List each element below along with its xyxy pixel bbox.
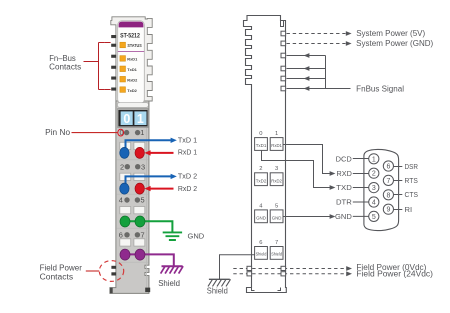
svg-text:6: 6 [259,240,262,246]
svg-text:0: 0 [259,131,262,137]
Fn-Bus contact tab 1 [111,35,116,38]
svg-text:5: 5 [372,214,376,221]
box Shield pin6 [255,247,268,260]
terminal socket squares row 4 [120,239,131,246]
wire RxD2 red [150,188,173,190]
lead pin8 to CTS [393,194,402,196]
svg-text:1: 1 [140,128,144,137]
svg-text:GND: GND [188,231,205,240]
terminal socket squares row 1 [120,142,131,149]
Fn-Bus contact tab 5 [111,77,116,80]
DB9 pin 7 [383,175,393,185]
red dashed circle around field power contacts [99,261,123,282]
fnbus signal wire 4 [287,88,351,90]
svg-text:TxD1: TxD1 [127,67,137,72]
dashed wire Field Power 0Vdc [233,268,346,270]
DB9 pin 5 [369,211,379,221]
schematic top-right hanging tab [281,21,284,27]
fnbus contact tab 3 [281,76,286,81]
field power contact tab lower [111,272,116,275]
pin row 0/1: hole dots [124,130,129,135]
svg-text:1: 1 [275,131,278,137]
Fn-Bus contact tab 4 [111,66,116,69]
rotary switch digit 1 window [134,111,146,125]
module ST-5212 body [110,17,152,294]
wire TxD2 blue [126,176,171,186]
Fn-Bus contact tab 6 [111,88,116,91]
lead pin6 to DSR [393,166,402,168]
rotary switch light bar [117,103,148,108]
shield symbol (schematic, black) [209,278,230,280]
field power crossing tab left-edge lower [247,272,252,276]
svg-text:RxD2: RxD2 [127,77,138,82]
svg-text:0: 0 [123,112,130,126]
terminal green pin4 [120,216,130,227]
module bottom-right dark notch [145,288,150,293]
box RxD1 [270,138,283,151]
STATUS LED [120,42,126,48]
svg-text:RxD 1: RxD 1 [178,148,197,157]
svg-text:RxD1: RxD1 [271,143,282,149]
terminal purple pin6 [120,249,130,260]
svg-text:2: 2 [120,162,124,171]
svg-text:TxD2: TxD2 [127,88,137,93]
svg-text:TXD: TXD [336,183,352,192]
svg-text:RxD2: RxD2 [271,178,282,184]
svg-text:2: 2 [372,171,376,178]
box TxD2 [255,173,268,186]
DB9 pin 1 [369,154,379,164]
terminal red pin3 [135,183,144,194]
svg-text:FnBus Signal: FnBus Signal [356,84,404,93]
svg-text:TxD 1: TxD 1 [178,135,197,144]
DB9 pin 6 [383,161,393,171]
svg-text:DCD: DCD [336,154,352,163]
wire TxD1 to TXD [262,150,331,187]
svg-text:6: 6 [386,164,390,171]
LED RxD2 [120,76,126,82]
terminal blue pin0 [120,147,129,158]
svg-text:3: 3 [372,185,376,192]
svg-text:3: 3 [141,162,145,171]
svg-text:GND: GND [256,215,266,221]
svg-text:TxD1: TxD1 [256,143,267,149]
module lower gray section [110,101,149,293]
svg-text:7: 7 [386,178,390,185]
svg-text:5: 5 [141,196,145,205]
svg-text:DTR: DTR [336,198,352,207]
svg-text:GND: GND [335,212,352,221]
fnbus signal wire 1 [287,55,326,57]
svg-text:Pin No: Pin No [45,128,70,137]
module purple header bar [119,22,144,28]
box Shield pin7 [270,247,283,260]
svg-text:Contacts: Contacts [49,63,81,72]
svg-text:1: 1 [137,112,144,126]
pin row 6/7: hole dots [124,232,129,237]
field power crossing tab right-edge upper [281,266,286,270]
svg-text:ST-5212: ST-5212 [120,32,140,39]
svg-text:Shield: Shield [256,252,267,257]
box GND pin4 [255,210,268,223]
LED RxD1 [120,56,126,62]
purple separator line [118,50,145,52]
wire Shield purple [125,254,173,265]
wire TxD1 blue [126,140,171,151]
svg-text:2: 2 [259,166,262,172]
red pointer line to field power contacts [86,270,99,272]
DB9 pin 3 [369,183,379,193]
red ring around pin label 0 [118,129,124,136]
fnbus contact tab 4 [281,86,286,91]
terminal red pin1 [135,147,144,158]
svg-text:6: 6 [119,231,123,240]
dashed wire System Power 5V [287,33,346,35]
DB9 pin 4 [369,197,379,207]
module label panel [118,21,145,104]
svg-text:RxD 2: RxD 2 [178,184,197,193]
svg-text:RXD: RXD [337,169,352,178]
svg-text:Field Power: Field Power [40,263,83,272]
fnbus signal wire 3 [287,78,326,80]
shield symbol purple [162,265,183,267]
box GND pin5 [270,210,283,223]
box TxD1 [255,138,268,151]
module body inner shading line [146,109,148,288]
fnbus contact tab 2 [281,66,286,71]
dashed wire System Power GND [287,43,346,45]
svg-text:4: 4 [372,200,376,207]
svg-text:DSR: DSR [405,162,418,171]
wire GND to DB9 pin5 [283,216,330,218]
svg-text:3: 3 [275,166,278,172]
svg-text:Shield: Shield [207,286,228,295]
svg-text:7: 7 [275,240,278,246]
svg-text:RTS: RTS [405,176,418,185]
svg-text:RI: RI [405,205,413,214]
terminal purple pin7 [135,249,145,260]
svg-text:1: 1 [372,156,376,163]
svg-text:System Power (5V): System Power (5V) [356,29,425,38]
red pointer line to pin 0 [72,132,118,134]
fnbus contact tab 1 [281,53,286,58]
terminal block divider lines [116,160,148,262]
DB9 pin 9 [383,204,393,214]
svg-text:GND: GND [272,215,282,221]
box RxD2 [270,173,283,186]
pin row 2/3: hole dots [125,164,130,169]
DB9 connector outline [364,149,399,230]
Fn-Bus contact tab 2 [111,44,116,47]
svg-text:CTS: CTS [405,190,419,199]
terminal blue pin2 [120,183,129,194]
svg-text:TxD2: TxD2 [256,178,267,184]
svg-text:4: 4 [259,203,263,209]
svg-text:Fn–Bus: Fn–Bus [49,54,76,63]
wire GND green [125,221,172,231]
LED TxD1 [120,66,126,72]
schematic bottom edge detail [252,288,281,291]
svg-text:Shield: Shield [271,252,282,257]
module bottom-left dark foot [110,288,113,294]
rotary switch black frame [118,110,147,127]
rotary switch digit 0 window [121,111,133,125]
DB9 pin 8 [383,190,393,200]
svg-text:TxD 2: TxD 2 [178,172,197,181]
fnbus signal wire 2 [287,68,326,70]
svg-text:RxD1: RxD1 [127,57,138,62]
wire RxD1 to RXD [283,145,330,174]
svg-text:8: 8 [386,192,390,199]
svg-text:7: 7 [141,231,145,240]
terminal green pin5 [135,216,145,227]
schematic module outline [244,16,287,293]
svg-text:STATUS: STATUS [127,43,141,48]
system power contact tab 2 [281,41,286,46]
lead pin9 to RI [393,209,402,211]
svg-text:5: 5 [275,203,278,209]
pin row 4/5: hole dots [124,197,129,202]
Fn-Bus contact tab 3 [111,55,116,58]
red bracket for Fn-Bus contacts [84,43,105,90]
svg-text:Shield: Shield [158,279,180,288]
svg-text:Field Power (24Vdc): Field Power (24Vdc) [356,269,433,278]
wire Shield pin6 to shield symbol [220,255,255,280]
field power crossing tab right-edge lower [281,272,286,276]
field power crossing tab left-edge upper [247,266,252,270]
svg-text:9: 9 [386,207,390,214]
wire RxD1 red [150,152,173,154]
DB9 pin 2 [369,168,379,178]
dashed wire Field Power 24Vdc [233,273,346,275]
lead pin7 to RTS [393,180,402,182]
terminal socket squares row 2 [120,173,131,180]
svg-text:4: 4 [119,196,123,205]
rotary switch gray frame [118,108,148,127]
field power contact tab upper [111,266,116,269]
fnbus vertical bus [325,56,327,89]
system power contact tab 1 [281,31,286,36]
svg-text:Contacts: Contacts [40,272,74,281]
svg-text:System Power (GND): System Power (GND) [356,39,433,48]
LED TxD2 [120,87,126,93]
ground symbol GND [163,232,182,240]
terminal socket squares row 3 [120,207,131,214]
